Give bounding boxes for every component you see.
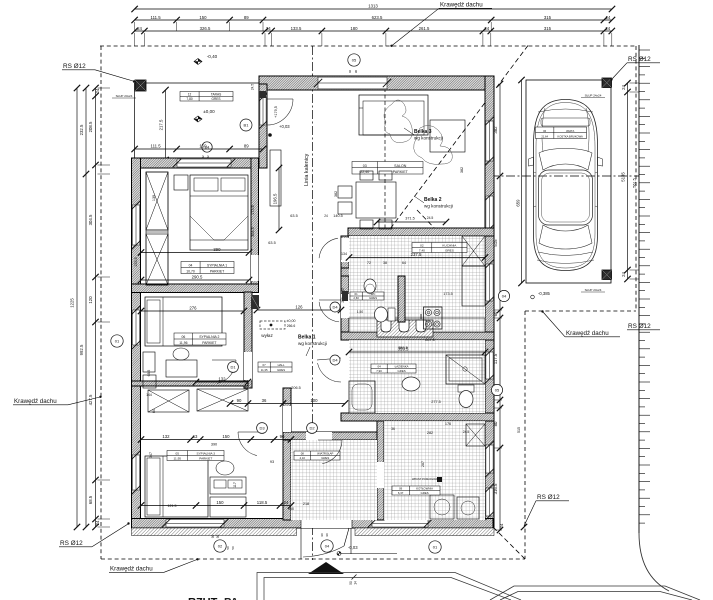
svg-text:64: 64 xyxy=(402,261,406,265)
terrace outline xyxy=(135,83,260,161)
svg-text:1225: 1225 xyxy=(70,298,75,308)
bedroom3 dimension row xyxy=(138,434,294,443)
kitchen west wall xyxy=(341,236,349,340)
svg-text:150: 150 xyxy=(199,15,207,20)
label Krawedz dachu left xyxy=(13,396,102,405)
svg-text:315: 315 xyxy=(544,15,552,20)
bedroom1 bed xyxy=(190,175,248,250)
door opening utility xyxy=(377,462,384,488)
carport length dimension 659 xyxy=(515,77,524,286)
svg-text:GRES: GRES xyxy=(369,296,377,300)
svg-text:Krawędź dachu: Krawędź dachu xyxy=(440,2,483,9)
bedroom2 bed xyxy=(145,297,222,346)
east window salon 2 xyxy=(485,192,493,233)
svg-text:6,37: 6,37 xyxy=(398,491,404,495)
door opening bathroom xyxy=(341,352,349,378)
svg-text:315: 315 xyxy=(544,26,552,31)
misc small dimensions hall and wc xyxy=(341,216,521,434)
svg-text:SYPIALNIA 1: SYPIALNIA 1 xyxy=(207,264,227,268)
utility room tiled floor xyxy=(384,421,485,520)
svg-text:SŁUP 24x24: SŁUP 24x24 xyxy=(585,288,602,292)
wc toilet xyxy=(375,307,396,322)
svg-text:24.5: 24.5 xyxy=(463,430,470,434)
svg-text:126: 126 xyxy=(295,305,303,310)
svg-text:+0,03: +0,03 xyxy=(279,124,290,129)
window marker 02 south xyxy=(214,540,226,552)
wiatrolap north wall xyxy=(283,432,383,440)
svg-text:390: 390 xyxy=(211,443,217,447)
door marker D2 xyxy=(307,423,318,434)
east window bathroom xyxy=(485,348,493,383)
bedroom1 wardrobe xyxy=(146,172,168,285)
svg-text:217.5: 217.5 xyxy=(159,119,164,130)
svg-text:D4: D4 xyxy=(332,305,338,310)
svg-text:Belka 2: Belka 2 xyxy=(424,197,442,203)
svg-text:GRES: GRES xyxy=(397,369,405,373)
terrace dimension 217.5 xyxy=(159,87,169,163)
kitchen tiled floor xyxy=(349,236,485,332)
wc tiled floor xyxy=(349,276,400,332)
room label xyxy=(392,486,440,495)
door arc bathroom xyxy=(317,358,341,382)
label Krawedz dachu bottom left xyxy=(109,558,199,572)
svg-text:140.5: 140.5 xyxy=(333,214,343,218)
level +0,03 near terrace door xyxy=(268,124,290,137)
svg-text:24.5: 24.5 xyxy=(427,216,434,220)
label Krawedz dachu right xyxy=(541,310,620,337)
svg-text:D1: D1 xyxy=(230,365,236,370)
wc east wall xyxy=(398,276,405,322)
svg-text:SYPIALNIA 3: SYPIALNIA 3 xyxy=(197,452,216,456)
svg-text:287.5: 287.5 xyxy=(425,338,435,342)
svg-text:139: 139 xyxy=(152,195,156,201)
label RS 012 right middle xyxy=(627,323,660,330)
svg-text:173.5: 173.5 xyxy=(443,292,453,296)
door opening wiatrolap xyxy=(306,432,332,440)
bedroom3 desk chair cabinet xyxy=(210,461,246,517)
carport post bottom (slup 24x24) xyxy=(581,270,612,292)
svg-text:38: 38 xyxy=(383,261,387,265)
svg-text:90: 90 xyxy=(280,434,285,439)
dimension row 2 xyxy=(131,15,615,23)
svg-text:347: 347 xyxy=(149,452,153,458)
svg-text:PARKIET: PARKIET xyxy=(393,170,409,174)
svg-text:7,80: 7,80 xyxy=(186,97,192,101)
window marker 05 east xyxy=(491,384,502,395)
bathroom bathtub xyxy=(349,381,375,413)
svg-text:36: 36 xyxy=(262,398,267,403)
level marker xyxy=(194,59,202,65)
svg-text:36: 36 xyxy=(391,427,395,431)
bedroom1-bedroom2 wall xyxy=(132,284,259,293)
north wall xyxy=(259,76,494,90)
svg-text:GRES: GRES xyxy=(321,456,329,460)
svg-text:RS Ø12: RS Ø12 xyxy=(628,56,651,63)
svg-text:RS Ø12: RS Ø12 xyxy=(60,540,83,547)
west window bedroom2 xyxy=(132,306,140,349)
svg-text:326.5: 326.5 xyxy=(200,26,211,31)
terrace column (slup 24x24) xyxy=(112,80,146,98)
svg-text:1,50: 1,50 xyxy=(357,310,363,314)
svg-text:24: 24 xyxy=(95,520,100,525)
window marker 01 west xyxy=(111,335,123,347)
bedroom3 east wall xyxy=(283,388,291,520)
bathroom washbasin xyxy=(402,377,420,391)
svg-text:wg konstrukcji: wg konstrukcji xyxy=(298,341,327,346)
svg-text:277.5: 277.5 xyxy=(431,400,441,404)
beam label Belka 3 xyxy=(404,128,443,141)
bedroom1 dimension 390 xyxy=(138,247,252,256)
bedroom3 bottom dims xyxy=(138,500,294,509)
svg-text:05: 05 xyxy=(176,452,180,456)
svg-text:01: 01 xyxy=(115,339,120,344)
svg-text:D3: D3 xyxy=(259,426,265,431)
svg-text:382: 382 xyxy=(460,167,464,173)
hall attic hatch wylaz xyxy=(260,321,285,338)
south window utility xyxy=(368,519,432,528)
svg-text:RS Ø12: RS Ø12 xyxy=(628,323,651,330)
svg-text:89: 89 xyxy=(244,144,249,149)
roof edge dashed outline (Krawedz dachu) xyxy=(100,46,636,559)
wc north wall xyxy=(341,268,400,276)
hall dimension row xyxy=(227,398,348,407)
svg-text:10,70: 10,70 xyxy=(186,269,195,273)
svg-text:24.5: 24.5 xyxy=(251,84,255,90)
room label xyxy=(412,243,467,253)
svg-text:50: 50 xyxy=(349,581,353,585)
west window bedroom1 xyxy=(132,201,140,249)
svg-text:-0,03: -0,03 xyxy=(348,545,358,550)
label RS 012 bottom left xyxy=(59,522,130,547)
entrance level -0,03 xyxy=(337,545,397,556)
svg-text:21,64: 21,64 xyxy=(541,134,548,138)
door opening bedroom1 xyxy=(251,255,259,281)
svg-text:206.5: 206.5 xyxy=(291,386,301,390)
svg-text:150: 150 xyxy=(199,144,207,149)
svg-text:Krawędź dachu: Krawędź dachu xyxy=(566,330,609,337)
window marker 04 east xyxy=(498,290,509,301)
svg-text:90: 90 xyxy=(354,70,358,74)
svg-text:GRES: GRES xyxy=(212,97,221,101)
carport post top (slup 24x24) xyxy=(581,78,612,98)
terrace door arc xyxy=(267,99,293,125)
svg-text:GRES: GRES xyxy=(277,368,285,372)
beam dashed line (Belka) xyxy=(384,88,386,237)
svg-text:05: 05 xyxy=(352,58,357,63)
plumbing shaft kitchen wall xyxy=(342,291,348,301)
entrance door opening xyxy=(301,519,352,529)
svg-text:515: 515 xyxy=(517,427,521,433)
svg-text:371.5: 371.5 xyxy=(405,217,415,221)
svg-text:90: 90 xyxy=(325,533,329,537)
svg-text:93: 93 xyxy=(270,460,274,464)
fence line east xyxy=(639,45,650,533)
svg-text:SŁUP 24x24: SŁUP 24x24 xyxy=(116,94,133,98)
door arc bedroom3 xyxy=(238,432,262,456)
svg-text:11,96: 11,96 xyxy=(179,341,187,345)
label Krawedz dachu top xyxy=(390,2,492,48)
south wall xyxy=(132,519,494,529)
ridge line Linia kalenicy (dash-dot) xyxy=(304,46,313,560)
utility west wall xyxy=(377,421,384,520)
roof hip dashed diagonal over kitchen xyxy=(417,210,487,283)
terrace door opening xyxy=(259,93,267,129)
wc washbasin xyxy=(364,279,376,294)
svg-text:173.5: 173.5 xyxy=(251,205,255,215)
svg-text:117: 117 xyxy=(233,482,237,488)
east window utility xyxy=(485,441,493,477)
svg-text:7,90: 7,90 xyxy=(376,369,382,373)
svg-text:wg konstrukcji: wg konstrukcji xyxy=(414,136,443,141)
extension lines left xyxy=(98,88,111,527)
svg-text:992.5: 992.5 xyxy=(79,344,84,355)
svg-text:304.5: 304.5 xyxy=(88,214,93,225)
svg-text:Krawędź dachu: Krawędź dachu xyxy=(14,398,57,405)
svg-text:D2: D2 xyxy=(309,426,315,431)
south wall under-dims xyxy=(211,535,235,550)
window marker 05 north xyxy=(348,54,360,66)
door opening kitchen-hall xyxy=(341,238,349,262)
east door utility xyxy=(485,484,493,520)
svg-text:24: 24 xyxy=(606,15,611,20)
svg-text:+179,5: +179,5 xyxy=(274,106,278,118)
floor drain label xyxy=(437,477,442,482)
bedroom1 nightstand xyxy=(174,175,188,190)
extension lines top xyxy=(135,22,612,46)
dimension row 3 xyxy=(131,26,615,34)
door marker D3 xyxy=(257,423,268,434)
svg-text:12: 12 xyxy=(188,92,192,96)
walkway outline from entrance xyxy=(257,573,521,600)
svg-text:06: 06 xyxy=(543,129,546,133)
svg-text:2,60: 2,60 xyxy=(353,296,359,300)
svg-text:153.5: 153.5 xyxy=(134,257,138,267)
extension lines east xyxy=(495,83,640,530)
svg-text:-0,385: -0,385 xyxy=(538,291,551,296)
west window bedroom3 xyxy=(132,451,140,494)
label RS 012 top right xyxy=(610,56,660,81)
kitchen fridge and counter right xyxy=(462,236,485,306)
window marker 04 north xyxy=(202,142,212,152)
svg-text:KOSTKA BRUKOWA: KOSTKA BRUKOWA xyxy=(558,134,583,138)
svg-text:04: 04 xyxy=(377,365,381,369)
svg-text:40: 40 xyxy=(348,70,352,74)
room label xyxy=(536,127,587,139)
svg-text:11,95: 11,95 xyxy=(174,456,182,460)
svg-text:05: 05 xyxy=(495,388,500,393)
salon dining table and chairs xyxy=(338,171,396,229)
svg-text:5135: 5135 xyxy=(621,172,626,182)
beam label Belka 1 xyxy=(298,335,327,357)
svg-text:92: 92 xyxy=(201,155,205,159)
bedroom2 east wall xyxy=(244,292,252,388)
room label xyxy=(350,292,384,300)
svg-text:KUCHNIA: KUCHNIA xyxy=(442,244,457,248)
svg-text:50: 50 xyxy=(226,546,230,550)
pavement strip south-west xyxy=(132,528,297,536)
svg-text:1313: 1313 xyxy=(368,4,378,9)
level marker xyxy=(194,116,202,122)
svg-text:PARKIET: PARKIET xyxy=(199,456,212,460)
svg-text:176: 176 xyxy=(445,422,451,426)
bathroom south wall xyxy=(341,413,494,421)
svg-text:68.5: 68.5 xyxy=(88,495,93,504)
svg-text:Belka 1: Belka 1 xyxy=(298,335,316,341)
salon dimension line xyxy=(374,219,449,225)
carport outline xyxy=(526,80,611,283)
utility boiler xyxy=(466,424,485,446)
svg-text:24: 24 xyxy=(605,26,610,31)
east outside dimension col xyxy=(493,81,504,533)
svg-text:KOTŁOWNIA: KOTŁOWNIA xyxy=(416,487,433,491)
svg-text:237.5: 237.5 xyxy=(411,252,422,257)
svg-text:180: 180 xyxy=(350,26,358,31)
svg-text:24: 24 xyxy=(284,500,289,505)
svg-text:TARAS: TARAS xyxy=(211,92,221,96)
room label xyxy=(294,451,340,460)
door arc bedroom2 xyxy=(212,360,236,384)
svg-text:63.5: 63.5 xyxy=(290,214,297,218)
wiatrolap tiled floor xyxy=(291,440,377,520)
bathroom tiled floor xyxy=(349,340,485,413)
svg-text:B1: B1 xyxy=(244,123,250,128)
svg-text:290.5: 290.5 xyxy=(192,275,203,280)
bedroom1 north wall xyxy=(132,158,260,168)
room label xyxy=(174,333,226,345)
svg-text:24: 24 xyxy=(137,26,142,31)
svg-text:144: 144 xyxy=(146,393,152,397)
roof hip dashed diagonal over salon xyxy=(384,46,528,238)
svg-text:276: 276 xyxy=(189,306,197,311)
bedroom1 dimension 290.5 xyxy=(138,275,252,284)
door opening bedroom2 xyxy=(244,352,252,380)
kitchen-bathroom wall xyxy=(341,332,494,340)
beam marker B1 xyxy=(240,119,252,131)
svg-text:02: 02 xyxy=(218,544,223,549)
svg-text:133.5: 133.5 xyxy=(291,26,302,31)
svg-text:PARKIET: PARKIET xyxy=(210,269,224,273)
kitchen dimension 237.5 xyxy=(346,252,488,261)
kitchen counter and sink xyxy=(349,314,485,337)
svg-text:196.5: 196.5 xyxy=(272,193,277,204)
svg-text:11,35: 11,35 xyxy=(261,368,268,372)
svg-text:4,10: 4,10 xyxy=(300,456,306,460)
svg-text:SŁUP 24x24: SŁUP 24x24 xyxy=(585,94,602,98)
svg-text:24: 24 xyxy=(95,88,100,93)
bathroom shower xyxy=(446,355,485,384)
svg-text:89: 89 xyxy=(244,15,249,20)
svg-text:24: 24 xyxy=(621,85,626,90)
room label xyxy=(371,364,416,373)
kitchen stove xyxy=(424,307,443,329)
svg-text:RS Ø12: RS Ø12 xyxy=(537,494,560,501)
svg-text:04: 04 xyxy=(325,544,330,549)
bedroom2 south wall xyxy=(132,381,249,386)
svg-text:390: 390 xyxy=(213,247,221,252)
salon tv cabinet xyxy=(270,150,281,206)
built-in wardrobes between bedroom2 and bedroom3 xyxy=(148,389,248,412)
svg-text:04: 04 xyxy=(502,294,507,299)
svg-text:02: 02 xyxy=(420,244,424,248)
bedroom3 bed xyxy=(145,456,208,517)
svg-text:wg konstrukcji: wg konstrukcji xyxy=(424,204,453,209)
svg-text:63: 63 xyxy=(193,434,198,439)
roof hip dashed diagonal bottom right xyxy=(466,500,525,559)
hall dimension 126 xyxy=(254,305,344,314)
svg-text:01: 01 xyxy=(433,545,438,550)
north wall window xyxy=(314,77,391,90)
svg-text:68.5: 68.5 xyxy=(147,370,151,377)
svg-text:561.5: 561.5 xyxy=(633,178,637,188)
east window salon 1 xyxy=(485,117,493,165)
svg-text:04: 04 xyxy=(189,264,193,268)
door marker D4 b xyxy=(330,355,340,365)
bedroom2 dimension 276 xyxy=(138,306,247,315)
svg-text:282: 282 xyxy=(427,431,433,435)
carport level -0,385 xyxy=(531,291,551,299)
svg-text:150: 150 xyxy=(288,507,294,511)
svg-text:14: 14 xyxy=(354,581,358,585)
svg-text:100: 100 xyxy=(310,398,318,403)
room label xyxy=(181,262,234,274)
svg-text:24: 24 xyxy=(324,214,328,218)
svg-text:ŁAZIENKA: ŁAZIENKA xyxy=(395,365,409,369)
svg-text:-0,40: -0,40 xyxy=(207,54,218,59)
svg-text:wyłaz: wyłaz xyxy=(261,333,273,338)
label RS 012 top left xyxy=(62,63,135,83)
room label xyxy=(258,362,292,372)
svg-text:287: 287 xyxy=(421,461,425,467)
svg-text:RZUT: RZUT xyxy=(188,597,218,600)
svg-text:150: 150 xyxy=(222,434,230,439)
svg-text:WIATA: WIATA xyxy=(566,129,574,133)
svg-text:218: 218 xyxy=(303,502,309,506)
svg-text:120: 120 xyxy=(88,296,93,304)
svg-text:382: 382 xyxy=(334,191,338,197)
bedroom1 east wall xyxy=(251,158,259,292)
ventilation shaft near hall xyxy=(251,295,259,309)
svg-text:Belka 3: Belka 3 xyxy=(414,129,432,135)
svg-text:659: 659 xyxy=(515,199,520,207)
svg-text:111.5: 111.5 xyxy=(151,15,162,20)
west wall xyxy=(132,158,141,528)
left dimension total 1225 xyxy=(70,85,81,530)
svg-text:24: 24 xyxy=(484,26,489,31)
door arc salon-hall xyxy=(319,238,341,260)
svg-text:24: 24 xyxy=(499,523,504,528)
bedroom2 dimension 132 xyxy=(193,377,251,386)
door marker D4 xyxy=(330,302,340,312)
svg-text:D4: D4 xyxy=(332,358,338,363)
svg-text:06: 06 xyxy=(181,335,185,339)
utility room washer and dryer xyxy=(430,495,479,519)
south window bedroom3 xyxy=(162,519,228,528)
north arrow xyxy=(308,562,344,574)
salon sofa xyxy=(359,95,465,152)
svg-text:Krawędź dachu: Krawędź dachu xyxy=(110,566,153,573)
bathroom toilet xyxy=(458,385,474,408)
terrace label TARAS xyxy=(180,92,233,102)
svg-text:90: 90 xyxy=(211,535,215,539)
svg-text:72: 72 xyxy=(367,261,371,265)
svg-text:±0,00: ±0,00 xyxy=(203,109,215,114)
svg-text:121.5: 121.5 xyxy=(168,504,177,508)
svg-text:GRES: GRES xyxy=(421,491,429,495)
svg-text:111.5: 111.5 xyxy=(151,144,162,149)
terrace-salon west wall xyxy=(259,84,267,168)
svg-text:SYPIALNIA 2: SYPIALNIA 2 xyxy=(199,335,219,339)
svg-text:PA: PA xyxy=(224,597,239,600)
